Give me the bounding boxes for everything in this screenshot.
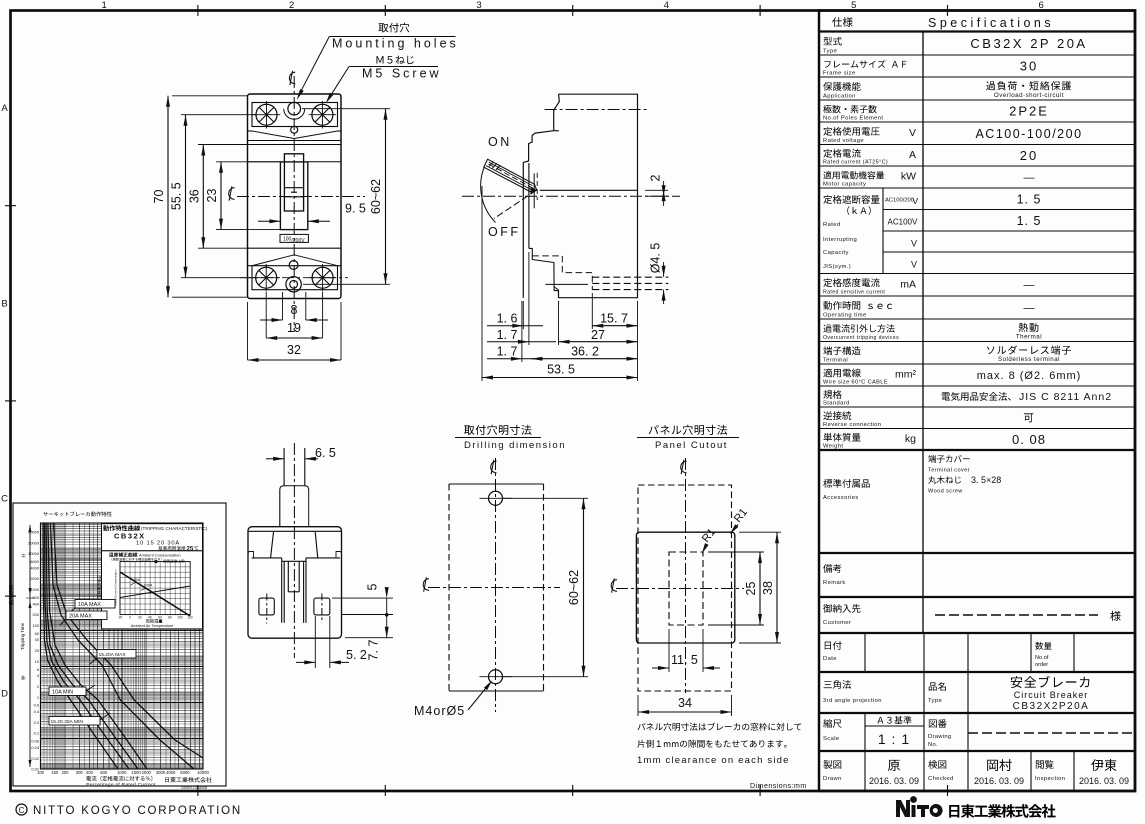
- front view dim 55.5: [181, 114, 256, 116]
- svg-text:6. 5: 6. 5: [315, 446, 336, 460]
- row: remark: [823, 564, 841, 573]
- spec table kA sub column divider: [882, 188, 884, 274]
- row: Type CB32X 2P 20A: [823, 37, 841, 46]
- svg-text:C: C: [19, 806, 25, 815]
- svg-text:25: 25: [744, 582, 758, 596]
- curve 15-20-30A MIN b: [45, 523, 130, 769]
- svg-text:100: 100: [283, 237, 292, 243]
- drilling hole top: [489, 491, 503, 505]
- svg-text:NITTO KOGYO CORPORATION: NITTO KOGYO CORPORATION: [33, 805, 242, 817]
- panel cutout note: [638, 723, 802, 731]
- chart outer box: [13, 503, 226, 786]
- drilling view rect: [449, 483, 544, 485]
- curve 15-20-30A MIN a: [43, 523, 118, 769]
- svg-text:order: order: [1035, 662, 1048, 668]
- svg-text:Tripping Time: Tripping Time: [20, 622, 25, 650]
- svg-text:Scale: Scale: [823, 736, 840, 742]
- inset curve: [120, 572, 190, 616]
- chart title block: [102, 524, 203, 551]
- bottom view shaft wide: [280, 486, 309, 527]
- svg-text:CB32X-CA-6008: CB32X-CA-6008: [181, 786, 207, 790]
- svg-text:2P2E: 2P2E: [1009, 104, 1049, 119]
- svg-text:CB32X 2P 20A: CB32X 2P 20A: [970, 36, 1087, 51]
- svg-text:3000: 3000: [156, 770, 166, 775]
- drilling hole bottom: [489, 670, 503, 684]
- chart grid vertical log lines: [40, 523, 42, 769]
- svg-text:CB32X: CB32X: [114, 532, 146, 541]
- svg-text:Rated voltage: Rated voltage: [823, 138, 864, 144]
- side view ON handle: [484, 159, 537, 191]
- svg-text:V: V: [911, 239, 917, 249]
- svg-text:40: 40: [148, 616, 152, 620]
- handle pivot arrow: [531, 186, 537, 194]
- row: wire size: [823, 369, 860, 378]
- svg-text:Type: Type: [928, 698, 942, 704]
- svg-text:55. 5: 55. 5: [170, 182, 184, 210]
- svg-text:JIS(sym.): JIS(sym.): [823, 264, 851, 270]
- drilling dim 60-62: [503, 497, 588, 499]
- spec table outer border: [819, 11, 1135, 792]
- front view dim 23: [216, 161, 280, 163]
- drilling view centerline horizontal: [428, 587, 560, 589]
- row: accessories: [823, 479, 869, 488]
- front view dim 9.5: [279, 215, 281, 226]
- chart grid horizontal log lines: [41, 558, 204, 560]
- row: Rated current: [823, 149, 860, 158]
- chart plot border: [41, 523, 204, 769]
- svg-text:Accessories: Accessories: [823, 495, 859, 501]
- svg-text:Rated current (AT25°C): Rated current (AT25°C): [823, 160, 888, 166]
- small hole below mounting hole: [291, 126, 298, 133]
- svg-text:2016. 03. 09: 2016. 03. 09: [1079, 776, 1129, 786]
- side view bottom dims: [481, 186, 483, 381]
- svg-text:Dimensions:mm: Dimensions:mm: [750, 783, 807, 790]
- svg-text:Overload·short-circuit: Overload·short-circuit: [994, 92, 1064, 99]
- panel cutout dim 25: [708, 551, 764, 553]
- bottom view dim 5.2: [314, 616, 316, 668]
- handle arc ON-OFF: [481, 167, 496, 223]
- svg-text:B: B: [1, 298, 7, 309]
- lower terminal V cover: [252, 255, 338, 266]
- svg-text:mA: mA: [900, 278, 916, 290]
- svg-text:0.01: 0.01: [31, 767, 39, 772]
- svg-text:23: 23: [205, 189, 219, 203]
- row: rated sensitive current: [823, 278, 879, 287]
- inset y label: [97, 575, 100, 597]
- bottom view left terminal screw: [259, 598, 274, 615]
- panel cutout inner window dashed: [669, 552, 703, 625]
- side view dim dia 4.5: [662, 266, 666, 277]
- svg-text:3. 5×28: 3. 5×28: [971, 475, 1001, 485]
- svg-text:/200V: /200V: [292, 238, 306, 244]
- spec table main column divider: [922, 32, 924, 634]
- bottom view shaft through housing: [287, 561, 289, 592]
- svg-text:Wood screw: Wood screw: [928, 489, 963, 495]
- svg-text:Specifications: Specifications: [928, 16, 1054, 30]
- side view dim 2: [645, 189, 668, 191]
- kA group label: [823, 195, 879, 204]
- bottom view side notches: [248, 552, 254, 558]
- svg-text:6000: 6000: [30, 559, 39, 564]
- side view outline: [559, 94, 638, 298]
- svg-text:kg: kg: [905, 433, 916, 445]
- lower cover lines: [248, 247, 342, 249]
- svg-text:15.20A MAX: 15.20A MAX: [99, 652, 127, 658]
- panel cutout title: [649, 425, 728, 435]
- svg-text:D: D: [1, 689, 8, 700]
- table header row: Specifications: [832, 17, 852, 27]
- svg-text:Terminal: Terminal: [823, 358, 848, 364]
- bottom view trapezoid recess: [271, 532, 274, 557]
- front view horizontal centerline toggle: [237, 196, 365, 198]
- svg-text:Terminal cover: Terminal cover: [928, 468, 970, 474]
- svg-text:40A: 40A: [133, 578, 140, 582]
- chart bottom company: [165, 777, 212, 783]
- svg-text:15. 7: 15. 7: [600, 312, 628, 326]
- chart inset box: [102, 551, 203, 629]
- curve 10A 20A MAX: [54, 523, 204, 758]
- curve 15-20A MAX: [51, 523, 195, 769]
- handle grip hatch: [489, 162, 494, 167]
- svg-text:Inspection: Inspection: [1035, 776, 1065, 782]
- svg-text:Mounting holes: Mounting holes: [332, 37, 459, 51]
- spec table row lines: [819, 30, 1135, 32]
- row: operating time: [823, 301, 892, 310]
- svg-text:C: C: [1, 494, 8, 505]
- row: Rated voltage: [823, 127, 879, 136]
- svg-text:mm²: mm²: [895, 369, 916, 381]
- svg-text:Reverse connection: Reverse connection: [823, 422, 881, 428]
- svg-text:AC100-100/200: AC100-100/200: [975, 127, 1082, 141]
- svg-text:Circuit Breaker: Circuit Breaker: [1014, 690, 1089, 700]
- svg-text:Operating time: Operating time: [823, 313, 867, 319]
- bottom mounting hole: [286, 277, 301, 292]
- svg-text:1mm clearance on each side: 1mm clearance on each side: [637, 755, 790, 766]
- top mounting hole M5: [288, 102, 301, 115]
- svg-text:No.: No.: [928, 742, 938, 748]
- svg-text:27: 27: [591, 328, 605, 342]
- svg-text:AC100/200: AC100/200: [885, 198, 914, 204]
- svg-text:600: 600: [33, 595, 40, 600]
- svg-text:1. 5: 1. 5: [1017, 214, 1042, 228]
- svg-text:100A: 100A: [144, 584, 153, 588]
- svg-text:1. 6: 1. 6: [497, 312, 518, 326]
- svg-text:53. 5: 53. 5: [547, 363, 575, 377]
- svg-text:Remark: Remark: [823, 580, 846, 586]
- OFF position dashed line: [494, 190, 536, 218]
- svg-text:Ambient Compensation: Ambient Compensation: [139, 553, 181, 558]
- front view dim 70: [172, 95, 248, 97]
- svg-text:0.2: 0.2: [34, 720, 39, 725]
- svg-text:A: A: [1, 103, 8, 114]
- bottom view center housing rails: [281, 558, 283, 623]
- svg-text:Motor capacity: Motor capacity: [823, 182, 866, 188]
- svg-text:4000: 4000: [30, 565, 39, 570]
- svg-text:200: 200: [61, 770, 69, 775]
- svg-text:10000: 10000: [197, 770, 209, 775]
- bottom view shaft centerline: [293, 443, 295, 658]
- svg-text:Thermal: Thermal: [1016, 334, 1042, 341]
- row: Application overload short circuit: [823, 82, 861, 91]
- row: overcurrent tripping devices: [823, 324, 894, 332]
- svg-text:400: 400: [86, 770, 94, 775]
- svg-text:1: 1: [102, 0, 107, 11]
- svg-text:0.06: 0.06: [31, 739, 39, 744]
- lower terminal block: [252, 266, 338, 290]
- chart x axis title: [86, 776, 152, 781]
- title block: scale / drawing no: [864, 713, 866, 751]
- panel cutout breaker outline dashed: [638, 485, 732, 691]
- row: standard: [823, 390, 841, 399]
- svg-text:150: 150: [51, 770, 59, 775]
- svg-text:1 : 1: 1 : 1: [878, 731, 910, 747]
- svg-text:6000: 6000: [180, 770, 190, 775]
- row: customer: [823, 604, 860, 613]
- svg-text:10A MAX: 10A MAX: [78, 602, 101, 608]
- svg-text:OFF: OFF: [488, 225, 521, 239]
- lower left terminal screw: [256, 267, 277, 288]
- svg-text:CB32X2P20A: CB32X2P20A: [1013, 701, 1090, 712]
- row: Frame size 30: [824, 60, 906, 68]
- lower right terminal screw: [312, 267, 333, 288]
- toggle escutcheon opening: [280, 162, 307, 230]
- front view bottom dims 8 19 32: [282, 292, 284, 320]
- svg-text:Drawing: Drawing: [928, 734, 951, 740]
- toggle slot front lines: [533, 173, 535, 208]
- curve 10A MIN b: [48, 523, 147, 769]
- svg-text:2: 2: [649, 174, 663, 181]
- svg-text:60~62: 60~62: [369, 179, 383, 214]
- panel cutout dim 38: [739, 531, 781, 533]
- side view terminal cover dashed outline: [532, 256, 592, 290]
- lower screws horizontal centerline: [240, 277, 348, 279]
- svg-text:0. 08: 0. 08: [1012, 432, 1046, 447]
- svg-text:2000: 2000: [30, 576, 39, 581]
- svg-text:38: 38: [761, 581, 775, 595]
- svg-text:1000: 1000: [117, 770, 127, 775]
- svg-text:200: 200: [33, 612, 40, 617]
- svg-text:Checked: Checked: [928, 776, 954, 782]
- svg-text:—: —: [1024, 172, 1035, 184]
- footer: copyright: [16, 804, 27, 815]
- svg-text:1: 1: [37, 695, 39, 700]
- svg-text:Weight: Weight: [823, 444, 843, 450]
- small hole above bottom mounting hole: [289, 261, 298, 270]
- svg-text:Date: Date: [823, 656, 837, 662]
- svg-text:V: V: [911, 260, 917, 270]
- svg-text:—: —: [1024, 302, 1035, 314]
- svg-text:M5 Screw: M5 Screw: [362, 67, 442, 81]
- front view dim 60-62 right: [302, 108, 390, 110]
- svg-text:Capacity: Capacity: [823, 250, 849, 256]
- svg-text:Rated: Rated: [823, 222, 840, 228]
- svg-text:300: 300: [76, 770, 84, 775]
- svg-text:Customer: Customer: [823, 620, 851, 626]
- leader to M5 screw: [328, 67, 349, 101]
- svg-text:10 15 20 30A: 10 15 20 30A: [136, 541, 180, 547]
- svg-text:0.6: 0.6: [34, 703, 39, 708]
- svg-text:400: 400: [33, 601, 40, 606]
- title block: drawn/checked/inspection: [864, 751, 866, 791]
- panel cutout centerlines: [685, 458, 687, 693]
- inset title: [109, 552, 138, 557]
- svg-text:11. 5: 11. 5: [671, 653, 698, 667]
- svg-text:0.02: 0.02: [31, 756, 39, 761]
- svg-text:10A MIN: 10A MIN: [52, 690, 73, 696]
- svg-text:20A MAX: 20A MAX: [69, 614, 92, 620]
- svg-text:19: 19: [287, 321, 301, 335]
- svg-text:30: 30: [1020, 59, 1038, 74]
- svg-text:Interrupting: Interrupting: [823, 237, 857, 243]
- svg-text:-20: -20: [118, 616, 123, 620]
- svg-text:No.of Poles Element: No.of Poles Element: [823, 116, 883, 122]
- svg-text:1. 7: 1. 7: [497, 328, 518, 342]
- svg-text:4: 4: [664, 0, 669, 11]
- svg-text:1. 7: 1. 7: [497, 345, 518, 359]
- svg-text:2016. 03. 09: 2016. 03. 09: [974, 776, 1024, 786]
- side view top stub: [554, 130, 559, 132]
- svg-text:(TRIPPING CHARACTERISTIC): (TRIPPING CHARACTERISTIC): [141, 526, 208, 531]
- svg-text:kW: kW: [901, 171, 916, 183]
- svg-text:1. 5: 1. 5: [1017, 192, 1042, 206]
- panel cutout solid rect: [636, 532, 734, 643]
- svg-text:60~62: 60~62: [567, 570, 581, 605]
- frame zone ticks left/right: [5, 205, 16, 207]
- svg-text:20: 20: [1020, 148, 1038, 163]
- upper cover lines: [248, 140, 342, 142]
- svg-text:100: 100: [33, 623, 40, 628]
- svg-text:4000: 4000: [166, 770, 176, 775]
- side view wire hole dashed lines: [592, 276, 668, 278]
- svg-text:Percentage of Rated Current: Percentage of Rated Current: [86, 782, 156, 788]
- svg-text:AC100V: AC100V: [888, 218, 918, 227]
- front view vertical centerline: [293, 76, 295, 332]
- svg-text:2000: 2000: [142, 770, 152, 775]
- svg-text:Application: Application: [823, 94, 856, 100]
- front view body outline: [248, 94, 342, 299]
- side view horizontal centerline: [462, 195, 680, 197]
- side view cover solid edges: [529, 248, 559, 290]
- row: No of poles 2P2E: [823, 105, 876, 113]
- svg-text:No.of: No.of: [1035, 655, 1049, 661]
- row: terminal: [823, 346, 860, 355]
- chart y axis arrow scale: [29, 525, 31, 767]
- curve 10A MIN: [46, 523, 138, 769]
- upper right terminal screw: [312, 104, 333, 125]
- rating label plate 100/200V: [280, 234, 308, 242]
- bottom view body: [248, 527, 342, 639]
- row: Motor capacity: [823, 171, 884, 179]
- svg-text:Frame size: Frame size: [823, 71, 856, 77]
- svg-text:80: 80: [168, 616, 172, 620]
- svg-text:Standard: Standard: [823, 401, 850, 407]
- bottom view right terminal screw: [314, 598, 330, 615]
- svg-text:36. 2: 36. 2: [571, 345, 599, 359]
- escutcheon side lines: [248, 161, 281, 163]
- labels mounting holes / M5 screw: [379, 23, 410, 33]
- drilling view centerline vertical: [495, 458, 497, 712]
- frame zone ticks top/bottom: [197, 5, 199, 16]
- svg-text:—: —: [1024, 280, 1035, 292]
- svg-text:5. 2: 5. 2: [346, 648, 367, 662]
- front view dim 36: [198, 144, 248, 146]
- svg-text:32: 32: [287, 343, 301, 357]
- svg-text:A: A: [909, 149, 916, 161]
- leader to mounting hole: [298, 37, 329, 97]
- svg-text:3: 3: [476, 0, 481, 11]
- svg-text:8: 8: [291, 303, 298, 317]
- bottom view top inner line: [248, 530, 342, 532]
- svg-text:3rd angle projection: 3rd angle projection: [823, 698, 882, 704]
- panel cutout dim 34: [637, 695, 639, 716]
- title block: date row: [864, 633, 866, 672]
- svg-text:Wire size 60°C CABLE: Wire size 60°C CABLE: [823, 380, 888, 386]
- svg-text:0.04: 0.04: [31, 745, 39, 750]
- svg-text:Drawn: Drawn: [823, 776, 842, 782]
- bottom view dim 5: [332, 597, 393, 599]
- svg-text:36: 36: [187, 189, 201, 203]
- side view handle offset line: [540, 189, 638, 191]
- svg-text:1000: 1000: [30, 587, 39, 592]
- svg-text:0.1: 0.1: [34, 731, 39, 736]
- svg-text:2: 2: [37, 684, 39, 689]
- svg-text:V: V: [912, 196, 918, 206]
- side view front panel inner line: [528, 163, 530, 248]
- title block: 3rd angle projection / product name: [923, 672, 925, 713]
- svg-text:2: 2: [289, 0, 294, 11]
- svg-text:1500: 1500: [131, 770, 141, 775]
- svg-text:V: V: [909, 127, 916, 139]
- svg-text:Ambient Air Temperature: Ambient Air Temperature: [131, 623, 174, 628]
- svg-text:max. 8 (Ø2. 6mm): max. 8 (Ø2. 6mm): [977, 370, 1082, 382]
- svg-text:60: 60: [158, 616, 162, 620]
- svg-text:Rated sensitive current: Rated sensitive current: [823, 290, 885, 296]
- upper terminal V cover: [252, 131, 338, 139]
- svg-text:70: 70: [152, 190, 166, 204]
- svg-text:6: 6: [37, 667, 39, 672]
- svg-text:15.20.30A MIN: 15.20.30A MIN: [51, 719, 84, 725]
- inset grid: [120, 561, 190, 563]
- svg-text:600: 600: [100, 770, 108, 775]
- svg-text:5: 5: [366, 583, 380, 590]
- svg-text:2016. 03. 09: 2016. 03. 09: [869, 776, 919, 786]
- svg-text:Drilling dimension: Drilling dimension: [464, 440, 566, 451]
- curve labels: [75, 600, 115, 609]
- svg-text:Panel Cutout: Panel Cutout: [655, 440, 728, 451]
- svg-text:Solderless terminal: Solderless terminal: [998, 356, 1060, 363]
- svg-text:Ø4. 5: Ø4. 5: [649, 243, 663, 274]
- svg-text:0: 0: [129, 616, 131, 620]
- svg-text:34: 34: [678, 696, 692, 710]
- svg-text:Type: Type: [823, 49, 837, 55]
- front view centerline symbol top: [289, 71, 295, 85]
- svg-text:0.4: 0.4: [34, 709, 40, 714]
- svg-text:7. 7: 7. 7: [367, 640, 381, 661]
- footer: NITTO logo: [949, 804, 1055, 818]
- svg-text:JIS C 8211 Ann2: JIS C 8211 Ann2: [1019, 391, 1112, 403]
- toggle handle: [284, 154, 303, 211]
- bottom view shaft narrow: [283, 448, 285, 486]
- upper left terminal screw: [256, 104, 277, 125]
- svg-text:20: 20: [138, 616, 142, 620]
- svg-text:9. 5: 9. 5: [345, 202, 366, 216]
- chart small title: [43, 511, 111, 516]
- drilling view title: [464, 425, 532, 435]
- side view top dash-dot centerline: [545, 109, 648, 111]
- svg-text:M4orØ5: M4orØ5: [414, 704, 465, 718]
- svg-text:100: 100: [177, 616, 183, 620]
- row: reverse connection: [823, 411, 851, 420]
